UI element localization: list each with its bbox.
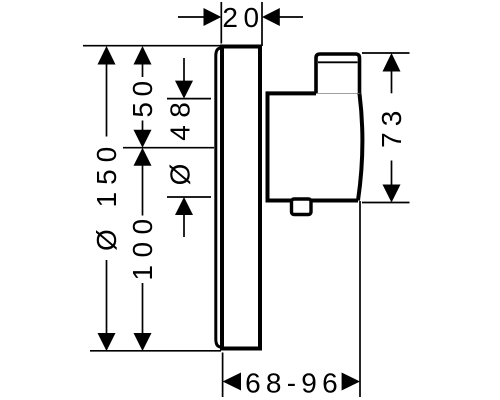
dimension 20: text label xyxy=(222,2,264,33)
bottom extension line at plate bottom xyxy=(90,350,221,352)
dimension 68-96: left arrow xyxy=(223,373,241,391)
dimension 100: bottom arrow xyxy=(134,283,152,351)
pipe stub on top of body xyxy=(316,54,360,94)
top extension line at plate top xyxy=(83,45,221,47)
bottom notch tab on body xyxy=(292,199,312,215)
dimension 20: left arrow and tail xyxy=(178,8,221,26)
svg-text:Ø 150: Ø 150 xyxy=(91,140,122,251)
dimension 50: bottom arrow at handle axis xyxy=(134,121,152,148)
dimension 100: top arrow at handle axis xyxy=(134,148,152,216)
dimension D48: top arrow pointing down xyxy=(175,58,193,99)
dimension D48: bottom tick xyxy=(167,196,211,198)
svg-text:68-96: 68-96 xyxy=(245,368,343,399)
svg-text:73: 73 xyxy=(376,105,407,148)
dimension D48: text label xyxy=(165,95,196,186)
svg-text:20: 20 xyxy=(222,2,264,33)
dimension 73: text label xyxy=(376,105,407,148)
escutcheon plate body rectangle xyxy=(222,47,260,349)
dimension 50: text label xyxy=(127,75,158,117)
dimension D150: top arrow xyxy=(98,46,116,137)
escutcheon plate front lip xyxy=(216,48,221,347)
svg-text:Ø 48: Ø 48 xyxy=(165,95,196,186)
dimension D150: bottom arrow xyxy=(98,260,116,351)
dimension 68-96: text label xyxy=(245,368,343,399)
dimension 20: right extension line xyxy=(261,2,263,46)
dimension 68-96: right arrow xyxy=(342,373,360,391)
dimension 68-96: right extension line xyxy=(359,201,361,397)
dimension D48: top tick xyxy=(167,98,211,100)
dimension 100: text label xyxy=(127,211,158,280)
dimension 73: bottom extension line xyxy=(362,202,410,204)
svg-text:50: 50 xyxy=(127,75,158,117)
dimension 73: top extension line xyxy=(362,52,410,54)
svg-text:100: 100 xyxy=(127,211,158,280)
dimension 73: bottom arrow xyxy=(383,161,401,203)
dimension D150: text label xyxy=(91,140,122,251)
dimension 68-96: left extension line xyxy=(222,353,224,398)
dimension 73: top arrow xyxy=(383,53,401,93)
handle axis extension line xyxy=(123,147,214,149)
valve body outline xyxy=(268,93,363,201)
dimension D48: bottom arrow pointing up xyxy=(175,197,193,237)
dimension 20: right arrow and tail xyxy=(262,8,303,26)
dimension 20: left extension line xyxy=(220,2,222,44)
dimension 50: top arrow xyxy=(134,46,152,77)
